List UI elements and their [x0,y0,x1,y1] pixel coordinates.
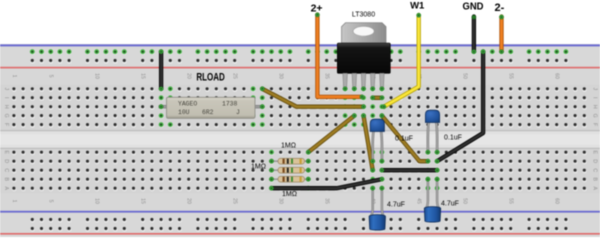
svg-text:GND: GND [463,1,484,13]
svg-text:C: C [592,168,598,172]
svg-text:15: 15 [140,73,146,79]
svg-text:35: 35 [324,73,330,79]
svg-text:RLOAD: RLOAD [196,72,225,84]
svg-text:0.1uF: 0.1uF [395,136,413,143]
svg-text:I: I [3,97,9,98]
svg-text:60: 60 [554,198,560,204]
svg-text:30: 30 [278,73,284,79]
svg-text:15: 15 [140,198,146,204]
svg-text:D: D [592,159,598,163]
svg-text:10U: 10U [178,109,190,116]
svg-text:0.1uF: 0.1uF [444,135,462,142]
svg-text:55: 55 [508,198,514,204]
svg-text:4.7uF: 4.7uF [441,201,459,208]
svg-text:5: 5 [48,200,54,203]
svg-text:J: J [236,109,240,116]
svg-text:G: G [3,114,9,118]
svg-text:1: 1 [11,75,17,78]
svg-text:25: 25 [232,73,238,79]
svg-text:B: B [592,177,598,181]
svg-text:LT3080: LT3080 [352,12,375,19]
svg-text:J: J [592,88,598,91]
svg-text:60: 60 [554,73,560,79]
svg-text:1MΩ: 1MΩ [251,164,266,171]
svg-text:2+: 2+ [311,2,323,14]
svg-text:55: 55 [508,73,514,79]
svg-text:20: 20 [186,198,192,204]
svg-text:A: A [592,186,598,190]
svg-text:1MΩ: 1MΩ [281,143,296,150]
svg-text:4.7uF: 4.7uF [387,202,405,209]
svg-text:F: F [3,123,9,126]
svg-text:1MΩ: 1MΩ [282,191,297,198]
svg-text:C: C [3,168,9,172]
svg-text:20: 20 [186,73,192,79]
svg-text:E: E [592,150,598,154]
svg-text:5: 5 [48,75,54,78]
svg-text:J: J [3,88,9,91]
svg-text:10: 10 [94,73,100,79]
svg-text:30: 30 [278,198,284,204]
svg-text:50: 50 [462,73,468,79]
svg-text:YAGEO: YAGEO [178,100,197,107]
svg-text:6R2: 6R2 [202,109,214,116]
svg-text:1: 1 [11,200,17,203]
svg-text:G: G [592,114,598,118]
svg-text:E: E [3,150,9,154]
svg-text:25: 25 [232,198,238,204]
svg-text:H: H [3,105,9,109]
svg-text:W1: W1 [410,0,425,11]
svg-text:F: F [592,123,598,126]
svg-text:B: B [3,177,9,181]
svg-text:I: I [592,97,598,98]
svg-text:D: D [3,159,9,163]
svg-text:35: 35 [324,198,330,204]
svg-text:10: 10 [94,198,100,204]
svg-text:2-: 2- [495,2,505,14]
svg-text:1738: 1738 [222,100,238,107]
svg-text:H: H [592,105,598,109]
svg-text:A: A [3,186,9,190]
svg-text:50: 50 [462,198,468,204]
svg-text:45: 45 [416,198,422,204]
